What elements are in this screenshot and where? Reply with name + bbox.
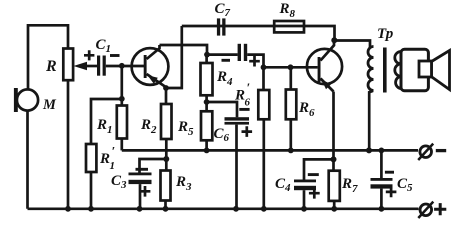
resistor R1'	[86, 144, 96, 172]
plus sign C2	[249, 56, 260, 67]
plus sign C3	[140, 186, 151, 197]
svg-text:C4: C4	[275, 176, 291, 194]
svg-text:R: R	[99, 151, 110, 167]
wire R2 bottom crossing rail	[165, 139, 168, 171]
transformer primary winding	[368, 47, 373, 91]
svg-text:Тр: Тр	[377, 26, 394, 42]
minus sign C2	[222, 59, 231, 62]
node base T1 junction	[119, 63, 125, 69]
wire primary bottom lead	[369, 91, 373, 151]
minus sign C1	[110, 54, 120, 57]
resistor R6	[286, 90, 297, 120]
svg-text:C6: C6	[214, 126, 230, 144]
resistor R5	[201, 111, 212, 140]
wire R7 bottom lead	[333, 201, 336, 209]
wire R6 top lead	[289, 67, 292, 89]
junction R1' on rail	[88, 206, 94, 212]
feedback rail top	[182, 26, 335, 40]
wire base node down to R1	[120, 66, 123, 106]
wire C4 bottom lead	[303, 190, 306, 209]
wire R1' bottom lead	[90, 172, 93, 209]
resistor R4	[201, 63, 213, 95]
resistor R8	[274, 21, 304, 32]
plus sign C6	[242, 126, 253, 137]
node T1 emitter	[163, 85, 169, 91]
transistor T2	[307, 43, 342, 92]
capacitor C2 interstage	[238, 44, 248, 61]
junction primary on minus rail	[366, 147, 372, 153]
junction R3 on rail	[163, 206, 169, 212]
svg-text:′: ′	[247, 80, 251, 95]
wire C3 bottom lead	[139, 184, 142, 209]
potentiometer wiper arrow	[74, 62, 98, 70]
resistor R (volume potentiometer)	[63, 49, 73, 81]
ground rail bottom (plus rail)	[28, 207, 419, 210]
capacitor C1	[97, 56, 106, 76]
svg-text:1: 1	[110, 160, 116, 172]
svg-text:R6: R6	[298, 100, 315, 119]
svg-text:R2: R2	[140, 117, 157, 136]
node R6 top	[288, 64, 294, 70]
node A junction dot	[204, 52, 210, 58]
svg-text:M: M	[42, 97, 57, 113]
wire C5 bottom lead	[380, 189, 383, 209]
junction C6 on rail	[233, 206, 239, 212]
wire mic bottom lead	[26, 111, 29, 209]
wire base bus to T2	[264, 66, 318, 69]
svg-text:R: R	[45, 58, 57, 75]
wire R4 top lead	[205, 55, 208, 63]
capacitor C5	[371, 178, 393, 189]
wire to C3	[140, 159, 167, 173]
wire emitter node to C4	[304, 159, 334, 179]
wire C1 to T1 base	[106, 65, 144, 68]
resistor R3	[161, 171, 171, 201]
minus sign C5	[385, 171, 394, 174]
minus supply rail	[122, 149, 418, 152]
wire R6 bottom lead	[289, 119, 292, 150]
svg-text:C5: C5	[397, 176, 413, 194]
capacitor C6	[225, 117, 250, 124]
terminal plus output	[418, 202, 446, 218]
svg-text:R5: R5	[177, 119, 194, 138]
capacitor C3	[129, 173, 152, 185]
wire node A to C2	[207, 53, 238, 56]
wire emitter to R2	[165, 88, 168, 104]
terminal minus output	[418, 144, 446, 160]
svg-text:R7: R7	[341, 176, 358, 195]
svg-text:R4: R4	[216, 69, 233, 88]
svg-text:C1: C1	[96, 37, 112, 55]
junction C5 on rail	[379, 206, 385, 212]
speaker	[419, 51, 450, 90]
junction C4 on rail	[301, 206, 307, 212]
node R4-R5 junction	[204, 99, 210, 105]
node T2 emitter bias	[331, 156, 337, 162]
minus sign C3	[136, 168, 149, 171]
plus sign C4	[309, 188, 320, 199]
wire C6 bottom lead	[235, 125, 238, 209]
svg-text:C3: C3	[111, 173, 127, 191]
svg-text:′: ′	[112, 144, 116, 159]
transformer core	[383, 48, 387, 93]
junction R5 on minus rail	[204, 148, 210, 154]
junction R bottom on rail	[65, 206, 71, 212]
resistor R1	[117, 106, 127, 139]
resistor R2	[161, 104, 172, 139]
svg-text:R: R	[234, 88, 245, 104]
junction R6 on minus rail	[288, 148, 294, 154]
junction C3 on rail	[137, 206, 143, 212]
resistor R6'	[258, 90, 269, 119]
plus sign C5	[386, 187, 397, 198]
svg-text:R1: R1	[96, 117, 113, 136]
node R1 top junction	[119, 96, 125, 102]
wire top-left from mic to R	[28, 25, 68, 89]
transformer secondary with speaker body	[395, 49, 429, 90]
node R6' top	[261, 64, 267, 70]
plus sign C1	[84, 50, 94, 60]
minus sign C6	[239, 108, 249, 111]
minus sign C4	[308, 173, 319, 176]
svg-text:6: 6	[245, 97, 251, 109]
node R2 bottom junction	[163, 156, 169, 162]
microphone M	[14, 88, 38, 112]
transistor T1	[132, 45, 169, 86]
wire R6' bottom lead	[262, 119, 265, 209]
node T2 collector	[331, 37, 337, 43]
capacitor C4	[294, 180, 316, 191]
junction R6' on rail	[261, 206, 267, 212]
wire T2 emitter down	[332, 92, 335, 171]
wire junction to C6	[207, 102, 237, 117]
wire T1 collector to node A	[160, 45, 208, 55]
wire collector to transformer	[334, 41, 370, 49]
resistor R7	[329, 171, 340, 201]
wire R4 bottom lead	[205, 95, 208, 111]
wire R bottom lead	[67, 80, 70, 209]
wire R5 bottom lead	[205, 140, 208, 150]
capacitor C7	[217, 18, 226, 35]
wire C2 to T2 base	[247, 55, 263, 90]
wire to R1'	[91, 99, 122, 144]
svg-text:R3: R3	[175, 174, 192, 193]
svg-text:R8: R8	[279, 1, 296, 20]
svg-text:C7: C7	[215, 1, 231, 19]
junction C5 on minus rail	[379, 148, 385, 154]
wire T1 emitter to feedback riser	[164, 26, 182, 88]
junction R7 on rail	[331, 206, 337, 212]
wire R3 bottom lead	[164, 201, 167, 209]
wire C5 top lead	[380, 150, 383, 178]
wire R1 bottom to minus rail	[120, 139, 123, 151]
